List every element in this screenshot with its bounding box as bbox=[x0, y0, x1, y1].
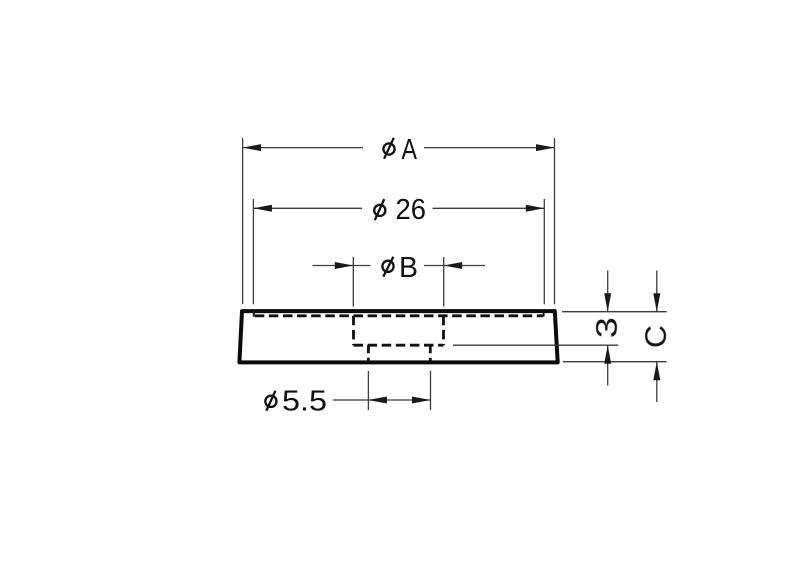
seat lip edge right bbox=[543, 311, 545, 316]
label Ø5.5 bbox=[265, 385, 327, 417]
arrowhead B left bbox=[335, 262, 354, 269]
dimension line C (vertical, outside arrows) bbox=[656, 271, 658, 403]
hidden through-hole left wall (dashed) bbox=[367, 345, 370, 362]
svg-text:3: 3 bbox=[591, 317, 624, 338]
svg-text:26: 26 bbox=[396, 194, 427, 226]
extension line right for dimension 5.5 bbox=[430, 371, 432, 410]
extension line left for dimension B bbox=[352, 257, 354, 307]
arrowhead 5.5 left bbox=[368, 397, 387, 404]
extension line right for dimension B bbox=[443, 257, 445, 307]
arrowhead 26 left bbox=[253, 205, 272, 212]
extension line right for dimension A bbox=[554, 138, 556, 304]
dimension line 26 bbox=[253, 207, 544, 209]
extension line left for dimension 5.5 bbox=[367, 371, 369, 410]
arrowhead B right bbox=[444, 262, 463, 269]
seat lip edge left bbox=[253, 311, 255, 316]
arrowhead 3 bottom bbox=[604, 345, 611, 364]
hidden seat line (dashed) bbox=[255, 314, 543, 317]
part outline (cap cross-section, heavy line) bbox=[239, 311, 557, 362]
dimension line 5.5 with leader bbox=[333, 399, 431, 401]
extension line top right (part top level) bbox=[562, 311, 667, 313]
hidden counterbore right wall (dashed) bbox=[442, 316, 445, 345]
svg-text:B: B bbox=[399, 252, 418, 284]
svg-text:C: C bbox=[640, 325, 673, 348]
svg-text:A: A bbox=[402, 134, 418, 166]
arrowhead A right bbox=[536, 144, 555, 151]
hidden counterbore left wall (dashed) bbox=[352, 316, 355, 345]
label Ø26 bbox=[374, 194, 426, 226]
arrowhead 3 top bbox=[604, 293, 611, 312]
dimension line B with outside arrows bbox=[313, 265, 486, 267]
extension line bottom right (part bottom level) bbox=[563, 361, 667, 363]
extension line middle right (counterbore depth level) bbox=[453, 344, 618, 346]
label ØB bbox=[382, 252, 418, 284]
extension line left for dimension A bbox=[242, 138, 244, 304]
label C (rotated) bbox=[640, 325, 673, 348]
extension line left for dimension 26 bbox=[252, 199, 254, 304]
label 3 (rotated) bbox=[591, 317, 624, 338]
svg-text:5.5: 5.5 bbox=[282, 385, 327, 417]
arrowhead 26 right bbox=[526, 205, 545, 212]
extension line right for dimension 26 bbox=[543, 199, 545, 304]
arrowhead A left bbox=[243, 144, 262, 151]
dimension line 3 (vertical, outside arrows) bbox=[607, 271, 609, 386]
arrowhead C bottom bbox=[653, 362, 660, 381]
hidden through-hole right wall (dashed) bbox=[429, 345, 432, 362]
hidden counterbore bottom (dashed) bbox=[354, 344, 444, 347]
arrowhead 5.5 right bbox=[412, 397, 431, 404]
arrowhead C top bbox=[653, 293, 660, 312]
label ØA bbox=[383, 134, 417, 166]
dimension line A bbox=[243, 147, 555, 149]
